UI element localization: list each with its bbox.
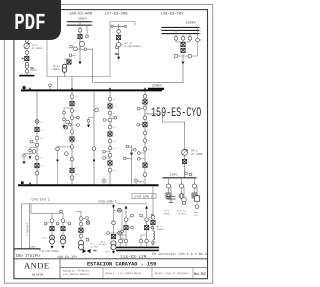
branch left pair	[141, 235, 147, 246]
svg-text:MW: MW	[94, 250, 98, 253]
disconnector circle	[25, 69, 29, 73]
itaipu corridor line 1	[21, 204, 23, 249]
svg-text:22kV: 22kV	[170, 173, 178, 177]
svg-text:Actualiz. 27/09/12: Actualiz. 27/09/12	[63, 269, 89, 272]
66kV stub bus	[20, 75, 34, 77]
VT on bus A	[49, 87, 51, 90]
svg-text:89-3: 89-3	[148, 148, 152, 151]
bar end dot right	[124, 25, 126, 27]
main busbar A 220kV	[22, 89, 161, 91]
row2 cell dividers	[102, 268, 104, 279]
CT circle	[74, 47, 78, 51]
aux feeder 3 wire	[194, 178, 196, 193]
side circle right	[133, 148, 136, 151]
disconnector circle	[108, 146, 112, 150]
svg-text:19,8kVA: 19,8kVA	[178, 212, 187, 215]
disconnector circle	[108, 111, 112, 115]
side disconnector on second drop	[86, 35, 89, 38]
svg-text:CYO-IPU 1: CYO-IPU 1	[26, 223, 29, 236]
corner arrow	[112, 205, 115, 208]
aux feeder 2 wire	[181, 178, 183, 194]
ground symbol	[151, 240, 156, 245]
feeder column C4 wire	[109, 91, 111, 185]
svg-text:IBO-ITAIPU: IBO-ITAIPU	[15, 254, 40, 259]
side VT left b	[137, 123, 140, 126]
svg-text:En servicio: CYO 1-2-3 BC-1: En servicio: CYO 1-2-3 BC-1	[152, 252, 207, 257]
junction wires	[75, 46, 92, 49]
disconnector circle	[25, 51, 29, 55]
second drop wire	[86, 25, 88, 35]
breaker box	[143, 163, 147, 167]
disconnector circle	[25, 39, 29, 43]
disconnector circle	[143, 173, 147, 177]
side CT right a	[77, 116, 80, 119]
VT pair small	[185, 172, 188, 175]
svg-text:89: 89	[149, 219, 151, 222]
disconnector circle	[35, 143, 39, 147]
breaker box	[25, 56, 29, 60]
22kV stub busbar	[163, 177, 196, 179]
side CT small	[70, 45, 73, 48]
svg-text:89-3: 89-3	[75, 146, 79, 149]
svg-text:Aprob.: Ing. S. Espinola: Aprob.: Ing. S. Espinola	[155, 272, 190, 275]
disconnector circle	[143, 116, 147, 120]
CT connection wires	[178, 53, 188, 61]
side CT right b	[77, 124, 80, 127]
breaker box	[151, 221, 155, 225]
svg-text:89-2: 89-2	[148, 140, 152, 143]
transformer TR-2	[50, 235, 55, 240]
svg-text:PDF: PDF	[14, 10, 45, 36]
header VT circle	[60, 210, 63, 213]
svg-text:89-2: 89-2	[40, 137, 44, 140]
TR-3 breaker box	[61, 227, 65, 231]
side circle b	[151, 226, 154, 229]
breaker box	[143, 123, 147, 127]
LIM double busbar	[117, 246, 158, 248]
disconnector circle	[70, 130, 74, 134]
svg-text:TR-2: TR-2	[43, 236, 48, 239]
HOR double busbar	[67, 21, 91, 23]
disconnector circle	[108, 125, 112, 129]
disconnector circle	[70, 116, 74, 120]
TR-01 breaker box	[67, 60, 71, 64]
disconnector circle	[124, 218, 128, 222]
LMA feeder 2 wire	[146, 206, 148, 246]
disconnector circle	[143, 139, 147, 143]
svg-text:89-1: 89-1	[55, 220, 59, 223]
disconnector circle 3	[188, 36, 192, 40]
side VT pair	[103, 150, 106, 153]
svg-text:47,5MVA: 47,5MVA	[99, 243, 108, 246]
TR-1 lv wire	[184, 155, 186, 178]
breaker box	[35, 127, 39, 131]
capacitor BC-1 wire	[170, 187, 172, 197]
bypass disconnector	[196, 38, 200, 42]
svg-text:66kV: 66kV	[138, 181, 144, 184]
HOR bay feeder wire	[79, 22, 81, 64]
disconnector circle	[108, 139, 112, 143]
feeder column C2 wire	[71, 91, 73, 185]
boundary line segment a	[22, 203, 78, 205]
side circle upper left	[126, 145, 129, 148]
side VT	[30, 140, 33, 143]
side chain left of C2	[64, 108, 72, 125]
svg-text:89: 89	[128, 219, 130, 222]
branch lower circle	[121, 230, 124, 233]
breaker box	[182, 159, 186, 163]
svg-text:52-1: 52-1	[75, 102, 79, 105]
cluster earthing circle	[64, 125, 68, 129]
transformer TR-3	[61, 235, 66, 240]
side feeder stub 1	[30, 147, 37, 155]
side VT left	[137, 107, 140, 110]
svg-text:89-3: 89-3	[40, 157, 44, 160]
transformer TR-4 feeder wire	[26, 39, 28, 75]
side feeder stub 2	[24, 153, 34, 160]
svg-text:ESTACION CARAYAO - 159: ESTACION CARAYAO - 159	[87, 261, 156, 267]
svg-text:130-ES-COV: 130-ES-COV	[161, 12, 185, 17]
feeder column C5 wire	[144, 91, 146, 185]
side circle	[151, 214, 154, 217]
breaker box	[70, 137, 74, 141]
disconnector circle	[79, 217, 83, 221]
svg-text:41,7MVA: 41,7MVA	[90, 245, 99, 248]
VT circle on line	[84, 48, 87, 51]
disconnector circle	[70, 176, 74, 180]
side earthing circle	[86, 221, 90, 225]
disconnector circle	[145, 218, 149, 222]
wire from C5 to TR-1	[145, 114, 185, 149]
VT stub on bus B right	[135, 182, 137, 185]
generator circle	[179, 194, 184, 199]
mid side VT	[56, 222, 59, 225]
svg-text:ST/DTR: ST/DTR	[32, 273, 43, 276]
wire to transformer	[65, 59, 70, 64]
breaker box	[78, 34, 82, 38]
junction dot	[93, 160, 95, 162]
side box small	[86, 238, 89, 241]
transformer big	[78, 240, 83, 245]
breaker box top	[143, 100, 147, 104]
bus tie column C3 wire	[93, 91, 95, 185]
main busbar B 66kV	[19, 184, 158, 186]
svg-text:89-2: 89-2	[75, 110, 79, 113]
regulating transformer TR-4	[24, 43, 29, 48]
svg-text:89-3: 89-3	[113, 126, 117, 129]
motor box	[192, 193, 197, 198]
partial tie column C6	[131, 145, 133, 185]
svg-text:52: 52	[84, 229, 86, 232]
branch left pair	[121, 235, 127, 246]
lower VT circle	[92, 147, 96, 151]
TR-2 arrow 66kV	[51, 244, 53, 246]
aux feeder 1 wire	[168, 178, 170, 193]
svg-text:DL/QQ/COAHA: DL/QQ/COAHA	[124, 45, 141, 48]
SRG entrance bar	[112, 25, 126, 27]
disconnector circle	[35, 156, 39, 160]
branch right	[114, 210, 123, 230]
bay boundary box around transformer bays	[47, 22, 135, 77]
outer border frame	[4, 4, 212, 283]
bus connection triangles	[71, 87, 73, 89]
bar end dot left	[111, 25, 113, 27]
node B marker	[21, 181, 24, 184]
up arrow	[145, 206, 148, 209]
breaker box dark	[79, 228, 83, 232]
svg-text:52-1: 52-1	[148, 101, 152, 104]
svg-text:52-2: 52-2	[75, 166, 79, 169]
disconnector circle	[179, 184, 183, 188]
svg-text:114-ES-LIM: 114-ES-LIM	[120, 255, 147, 260]
breaker box	[70, 168, 74, 172]
side VT pair left	[137, 152, 140, 155]
svg-text:220kV: 220kV	[29, 246, 36, 249]
disconnector circle low	[145, 239, 149, 243]
side VT left	[103, 119, 106, 122]
disconnector circle	[108, 118, 112, 122]
side circle	[131, 214, 134, 217]
svg-text:89-2: 89-2	[66, 220, 70, 223]
svg-text:220kV: 220kV	[78, 17, 88, 21]
line arrow	[182, 62, 185, 65]
COV bay drop wires	[176, 27, 198, 38]
side circle b	[131, 226, 134, 229]
TR-2 side VT	[44, 222, 47, 225]
disconnector circle top	[143, 94, 147, 98]
disconnector circle	[70, 95, 74, 99]
tiny equipment labels texture	[31, 96, 152, 233]
disconnector circle 1	[174, 36, 178, 40]
svg-text:2MVAr: 2MVAr	[164, 212, 171, 215]
TR-3 side VT	[68, 222, 71, 225]
CT double circle	[116, 42, 121, 47]
breaker box	[108, 161, 112, 165]
VT circle left lower	[69, 54, 72, 57]
TR-2 chain disconnector	[50, 219, 54, 223]
side CT right	[114, 116, 117, 119]
disconnector circle	[192, 184, 196, 188]
capacitor plates	[167, 196, 175, 202]
disconnector circle 2	[181, 36, 185, 40]
side CT left	[174, 54, 178, 58]
cluster circle	[66, 120, 70, 124]
inductor coil	[153, 231, 155, 240]
svg-text:31/05/70MVA: 31/05/70MVA	[42, 250, 60, 253]
tie wire to COV	[92, 49, 94, 82]
inner border frame	[14, 10, 208, 279]
TR-01 wire to bus A	[58, 72, 73, 89]
svg-text:52-2: 52-2	[148, 164, 152, 167]
LMA feeder 1 wire	[125, 206, 127, 246]
tie side loop	[89, 118, 95, 125]
svg-text:146-ES-IPY: 146-ES-IPY	[57, 255, 77, 260]
aux transformer column	[183, 187, 185, 197]
disconnector circle	[79, 234, 83, 238]
disconnector circle	[70, 109, 74, 113]
svg-text:47,5MVA: 47,5MVA	[32, 47, 43, 50]
reactor BL-2 wire	[152, 187, 154, 231]
svg-text:89-1: 89-1	[40, 120, 44, 123]
svg-text:52-2: 52-2	[40, 164, 44, 167]
side VT	[107, 232, 110, 235]
svg-text:137-ES-SRG: 137-ES-SRG	[105, 12, 129, 17]
node A marker on bus A	[23, 86, 26, 89]
branch capacitor marks	[120, 239, 124, 243]
switch box	[194, 196, 199, 201]
itaipu stub bus	[14, 248, 40, 250]
disconnector circle	[151, 216, 155, 220]
svg-text:No.BC: No.BC	[194, 272, 207, 277]
breaker box	[117, 35, 121, 39]
breaker box	[70, 102, 74, 106]
services column	[196, 187, 198, 196]
boundary line segment c	[118, 203, 147, 205]
breaker box	[145, 226, 149, 230]
breaker box	[108, 104, 112, 108]
breaker box	[124, 226, 128, 230]
disconnector circle	[195, 205, 199, 209]
svg-text:ANDE: ANDE	[24, 260, 50, 270]
arrow below + 22kV	[113, 250, 115, 251]
disconnector circle	[108, 153, 112, 157]
aux transformer circles	[182, 197, 187, 202]
side circle left	[140, 214, 143, 217]
tie arrow mark	[130, 153, 133, 156]
svg-text:Superv.: Lic. Pablo Rojas: Superv.: Lic. Pablo Rojas	[106, 272, 142, 275]
side CT right	[188, 54, 192, 58]
transformer TR-1 regulating	[182, 150, 188, 156]
big disconnector circle	[79, 41, 84, 46]
C2 side drop to bus B	[58, 147, 73, 185]
svg-text:89-2: 89-2	[113, 112, 117, 115]
transformer TR-4 low	[111, 241, 116, 246]
svg-text:59: 59	[31, 144, 33, 147]
offset CT circle	[64, 152, 68, 156]
svg-text:52-1: 52-1	[113, 105, 117, 108]
disconnector circle	[78, 28, 82, 32]
disconnector circle	[112, 221, 116, 225]
disconnector circle	[108, 168, 112, 172]
transformer TR-01	[62, 64, 66, 68]
svg-text:CYO-IPU 1: CYO-IPU 1	[32, 197, 50, 202]
VT stub on bus B left	[103, 182, 105, 185]
disconnector circle	[79, 222, 83, 226]
svg-text:220kV: 220kV	[186, 21, 197, 26]
svg-text:MW: MW	[115, 53, 119, 56]
disconnector circle	[70, 157, 74, 161]
side circle lower left	[123, 157, 126, 160]
side CT	[86, 217, 89, 220]
ANDE cell divider	[59, 259, 61, 279]
line arrow	[117, 57, 120, 60]
svg-text:89-6: 89-6	[113, 169, 117, 172]
feeder column C1 wire	[36, 91, 38, 185]
CT pair	[25, 62, 28, 65]
disconnector circle	[70, 145, 74, 149]
svg-text:89-5: 89-5	[113, 147, 117, 150]
disconnector circle	[108, 97, 112, 101]
svg-text:89-1: 89-1	[113, 98, 117, 101]
disconnector circle low	[124, 239, 128, 243]
svg-text:89-4: 89-4	[75, 173, 79, 176]
pdf badge background	[0, 0, 61, 40]
cluster small circle	[69, 123, 72, 126]
disconnector circle	[143, 131, 147, 135]
disconnector circle	[35, 171, 39, 175]
offset CT circle	[32, 150, 36, 154]
svg-text:52-1: 52-1	[40, 128, 44, 131]
disconnector circle	[143, 106, 147, 110]
VT circle on tie	[95, 108, 99, 112]
COV quad busbar	[162, 26, 199, 28]
side junction dot	[22, 58, 24, 60]
svg-text:20MVA: 20MVA	[53, 68, 61, 71]
svg-text:47,5MVA: 47,5MVA	[191, 153, 203, 156]
svg-text:1: 1	[159, 247, 160, 250]
branch circle	[118, 208, 122, 212]
disconnector circle	[117, 30, 121, 34]
svg-text:Lic. Héctor Rozeta: Lic. Héctor Rozeta	[63, 273, 89, 276]
breaker box upper	[181, 43, 185, 47]
svg-text:220kV: 220kV	[152, 83, 163, 88]
TR-4 lower chain wire	[113, 204, 115, 239]
up arrow	[125, 206, 128, 209]
open point bowtie symbol	[80, 250, 82, 251]
itaipu corridor line 2	[28, 204, 30, 249]
branch right with earthing circle	[114, 232, 119, 234]
motor box	[166, 193, 171, 198]
svg-text:52-2: 52-2	[113, 133, 117, 136]
merge wires to breaker	[176, 40, 190, 42]
breaker box	[35, 164, 39, 168]
earthing switch circle	[35, 120, 39, 124]
TR-3 chain disconnector	[61, 219, 65, 223]
label box CYO-LMA 2	[132, 194, 156, 199]
svg-text:89-4: 89-4	[113, 140, 117, 143]
svg-text:CYO-LMA 1: CYO-LMA 1	[99, 199, 117, 204]
disconnector circle	[166, 184, 170, 188]
disconnector circle	[143, 147, 147, 151]
TR-2 breaker box	[50, 227, 54, 231]
title block row divider	[60, 267, 208, 269]
disconnector circle	[35, 136, 39, 140]
TR-3 arrow 66kV	[62, 244, 64, 246]
long tie wire to HOR bay	[94, 81, 183, 83]
TR-1 lower chain wire	[76, 211, 82, 240]
TR-2/TR-3 header wire	[31, 204, 63, 219]
line arrow	[79, 62, 82, 65]
title block top line	[14, 258, 208, 260]
breaker box	[108, 132, 112, 136]
COV tie wire down	[182, 64, 184, 82]
SRG bay wire	[118, 26, 120, 56]
svg-text:20MVAr: 20MVAr	[157, 228, 165, 231]
breaker box lower	[181, 48, 185, 52]
boundary line segment b	[78, 203, 113, 205]
breaker box	[111, 235, 115, 239]
svg-text:89-1: 89-1	[75, 96, 79, 99]
svg-text:159-ES-CYO: 159-ES-CYO	[151, 105, 201, 120]
svg-text:CYO-LMA 2: CYO-LMA 2	[135, 195, 153, 200]
